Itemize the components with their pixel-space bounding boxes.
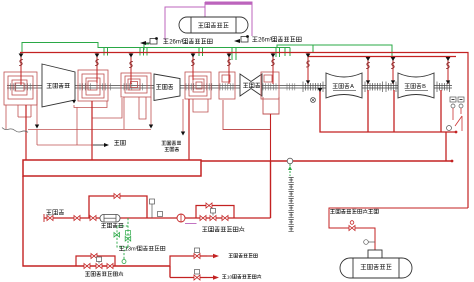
IP left gland drain [223, 100, 271, 130]
LP A right gland hatches [365, 82, 383, 93]
label: gland inlet regulating valve [202, 226, 244, 231]
label: to 26m3 drain flash tank (right) [234, 35, 249, 43]
gauges on line [150, 199, 163, 218]
HP right gland supply with valve [191, 53, 196, 80]
label: to IP-LP crossover line 1 [162, 141, 181, 145]
gland steam cooler (top) [179, 17, 248, 33]
LP B drains [394, 90, 446, 161]
svg-text:A: A [350, 84, 354, 90]
label: to no.10 LP heater [222, 274, 261, 279]
label: IP cylinder [243, 83, 260, 88]
flow element [177, 214, 185, 222]
LP A drains [320, 90, 456, 132]
gland inlet regulating valve group [196, 206, 271, 219]
svg-text:10: 10 [227, 274, 233, 279]
heater bypass [89, 196, 147, 218]
label: to 26m3 drain flash tank (left) [140, 37, 158, 45]
HP turbine cylinder [154, 74, 180, 101]
label: LP cylinder A [333, 84, 354, 91]
label: to 13m3 drain flash tank [119, 246, 165, 253]
HP left gland supply with valve [129, 53, 134, 84]
aux steam valve 1 [47, 216, 53, 221]
overflow line to right [201, 160, 452, 162]
UHP right gland seal box [78, 70, 108, 101]
LP B supplies with valves [391, 57, 451, 85]
label: to 26m3 drain flash tank (left) [163, 39, 212, 46]
IP right gland supply with valve [271, 53, 276, 84]
svg-text:13m³: 13m³ [125, 247, 138, 253]
aux steam valve 2 [74, 216, 80, 221]
green drain to 13m3 flash tank [117, 218, 128, 259]
red gland steam supply header [20, 53, 468, 209]
IP right gland seal box [261, 72, 279, 99]
label: electric heater [101, 223, 123, 228]
label: to HP condenser [229, 254, 258, 258]
drain tap circle [122, 260, 126, 264]
gauge near cooler [364, 240, 375, 245]
LP B right gland hatches [437, 82, 450, 93]
riser from regulating valve to overflow line [270, 161, 272, 218]
label: gland steam cooler (top) [198, 23, 228, 28]
steam feed pump gland steam line [329, 208, 468, 250]
UHP right gland supply with valve [95, 53, 100, 83]
UHP right gland drain loops [72, 98, 122, 118]
auxiliary steam line [44, 214, 196, 222]
green header pipe to 26m3 flash tank [22, 43, 392, 61]
UHP turbine cylinder [42, 64, 75, 107]
instruments at LP B right [450, 97, 464, 108]
gland steam cooler (bottom) [340, 250, 412, 278]
HP right gland drain loops [193, 99, 208, 112]
label: gland steam cooler (bottom) [361, 264, 392, 269]
UHP left gland seal box [4, 72, 37, 105]
UHP left gland supply with valve [19, 53, 24, 85]
label: HP cylinder [156, 84, 173, 89]
left down pipe from vessel [23, 176, 170, 266]
HP left gland drains [124, 97, 146, 129]
LP A turbine cylinder [326, 73, 362, 98]
gland overflow regulating valve group [76, 256, 115, 266]
overflow split to HP condenser and no.10 LP heater [170, 256, 207, 278]
IP right gland drain loop [263, 97, 279, 114]
label: auxiliary steam supply [46, 210, 64, 215]
svg-text:26m³: 26m³ [258, 38, 272, 44]
label: to IP-LP crossover line 2 [165, 147, 179, 151]
aux steam valve 3 [90, 216, 96, 221]
IP left gland seal box [219, 72, 235, 99]
HP exhaust squiggle line [2, 128, 28, 133]
LP A supplies with valves [306, 53, 371, 85]
HP left gland seal box [121, 73, 151, 97]
svg-text:26m³: 26m³ [169, 40, 183, 46]
label: HP exhaust [114, 140, 125, 145]
label: steam feed pump gland steam [330, 209, 378, 214]
label: condensate users header (vertical) [288, 178, 293, 232]
drain collecting line y129 [28, 129, 151, 131]
instrument [311, 98, 316, 103]
gland steam equalizing vessel [23, 160, 201, 176]
label: LP cylinder B [405, 84, 426, 91]
IP left gland supply with valve [227, 53, 232, 84]
label: UHP cylinder [47, 83, 70, 88]
magenta gland leak-off piping to gland steam cooler [165, 2, 252, 40]
LP A left gland hatches [303, 82, 323, 93]
UHP left gland drains [6, 105, 31, 129]
drain line to HP exhaust y145 [37, 107, 109, 147]
condensate users header tap [287, 158, 293, 176]
svg-text:B: B [422, 84, 426, 90]
label: to 26m3 drain flash tank (right) [252, 37, 301, 44]
LP B turbine cylinder [398, 73, 434, 98]
electric heater [100, 215, 120, 223]
turbine shaft [7, 86, 452, 88]
magenta stub [185, 223, 197, 225]
drain arrow to IP-LP crossover [181, 99, 185, 136]
IP turbine cylinder [240, 74, 262, 96]
HP right gland seal box [185, 72, 211, 99]
label: gland overflow regulating valve [85, 271, 123, 276]
LP B left gland hatches [386, 82, 396, 93]
